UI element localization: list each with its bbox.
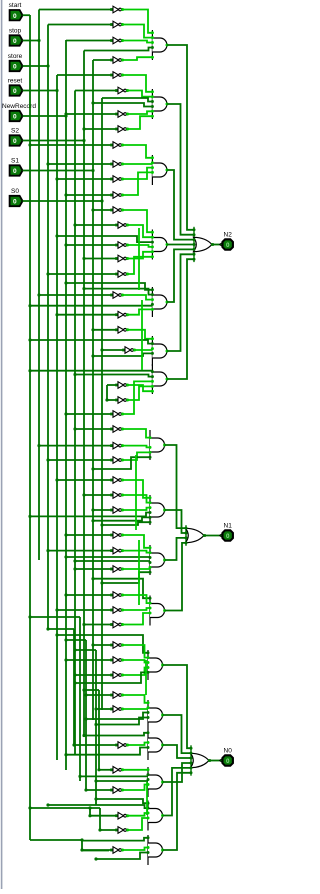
node OR N1 input port 1 bbox=[185, 527, 188, 530]
svg-text:NewRecord: NewRecord bbox=[2, 103, 36, 110]
inverter NOT y=709 bbox=[110, 706, 124, 713]
wire NOT input feed y=510 bbox=[93, 509, 111, 511]
node AND y=351 input port 2 bbox=[151, 342, 154, 345]
wire feed row y=525 to AND y=510 bbox=[102, 522, 150, 525]
inverter NOT y=675 bbox=[110, 672, 124, 679]
node feed junction bbox=[84, 693, 87, 696]
wire from input pin bbox=[23, 115, 66, 117]
inverter NOT y=550.6 bbox=[110, 547, 124, 554]
node feed junction bbox=[73, 681, 76, 684]
node OR N2 input port 4 bbox=[193, 243, 196, 246]
wire feed row y=561 to AND y=560 bbox=[75, 560, 150, 562]
node AND y=445 input port 6 bbox=[149, 456, 152, 459]
node AND y=510 input port 6 bbox=[149, 521, 152, 524]
wire feed row y=9.5 to AND y=45 bbox=[122, 10, 152, 33]
wire bus column x=57 bbox=[56, 75, 58, 760]
wire NOT input feed y=400 bbox=[107, 399, 116, 401]
inverter NOT y=75 bbox=[110, 72, 124, 79]
wire from input pin bbox=[23, 40, 39, 42]
AND gate y=610.5 bbox=[150, 596, 166, 626]
wire bus column x=66 bbox=[65, 40, 67, 770]
svg-text:0: 0 bbox=[226, 758, 230, 765]
inverter NOT y=660 bbox=[110, 657, 124, 664]
wire feed row y=340 to AND y=351 bbox=[30, 340, 152, 344]
AND gate y=45 bbox=[152, 30, 168, 60]
node AND y=45 input port 3 bbox=[151, 41, 154, 44]
node AND y=351 input port 3 bbox=[151, 347, 154, 350]
wire NOT input feed y=295 bbox=[39, 294, 111, 296]
inverter NOT y=790 bbox=[110, 787, 124, 794]
wire NOT input feed y=550.6 bbox=[48, 550, 111, 552]
node feed junction bbox=[94, 779, 97, 782]
wire NOT input feed y=60 bbox=[93, 59, 111, 61]
inverter NOT y=645 bbox=[110, 642, 124, 649]
node OR N0 input port 3 bbox=[190, 757, 193, 760]
wire feed row y=400 to AND y=379 bbox=[127, 386, 152, 400]
svg-text:0: 0 bbox=[13, 88, 17, 95]
node AND y=379 input port 6 bbox=[151, 390, 154, 393]
node AND y=510 input port 4 bbox=[149, 511, 152, 514]
wire AND y=745 to OR N0 bbox=[163, 745, 191, 758]
wire AND y=170 to OR N2 bbox=[167, 170, 194, 240]
svg-text:N0: N0 bbox=[224, 748, 233, 755]
OR gate N0 bbox=[191, 745, 211, 775]
node feed junction bbox=[64, 593, 67, 596]
AND gate y=782 bbox=[148, 767, 164, 797]
svg-text:0: 0 bbox=[13, 13, 17, 20]
wire drop to NOT 830 bbox=[99, 808, 101, 830]
wire feeder column x=96 bbox=[95, 650, 97, 805]
inverter NOT y=400 bbox=[115, 397, 129, 404]
wire feeder link bbox=[48, 628, 74, 630]
node pin-bus junction bbox=[46, 64, 49, 67]
wire NOT input feed y=75 bbox=[57, 74, 111, 76]
wire feed row y=595 to AND y=610.5 bbox=[122, 595, 150, 603]
node feed junction bbox=[73, 559, 76, 562]
wire feed row y=114 to AND y=104 bbox=[127, 111, 152, 114]
wire feed row y=414 to AND y=379 bbox=[122, 381, 152, 414]
node OR N1 input port 2 bbox=[185, 532, 188, 535]
wire from input pin bbox=[23, 200, 102, 202]
inverter NOT y=295 bbox=[110, 292, 124, 299]
inverter NOT y=745 bbox=[115, 742, 129, 749]
inverter NOT y=595 bbox=[110, 592, 124, 599]
svg-text:N2: N2 bbox=[224, 232, 233, 239]
wire NOT input feed y=675 bbox=[75, 674, 111, 676]
node feed junction bbox=[37, 444, 40, 447]
input pin start bbox=[9, 2, 23, 20]
wire feed row y=578.7 to AND y=610.5 bbox=[93, 579, 150, 599]
node OR N2 input port 7 bbox=[193, 258, 196, 261]
node AND y=104 input port 3 bbox=[151, 100, 154, 103]
node AND y=379 input port 3 bbox=[151, 375, 154, 378]
node feed junction bbox=[28, 369, 31, 372]
inverter NOT y=129 bbox=[115, 126, 129, 133]
node feed junction bbox=[94, 857, 97, 860]
node feed junction bbox=[94, 797, 97, 800]
AND gate y=104 bbox=[152, 89, 168, 119]
node feed junction bbox=[73, 373, 76, 376]
wire NOT input feed y=179 bbox=[57, 178, 111, 180]
node OR N0 input port 2 bbox=[190, 752, 193, 755]
node feed junction bbox=[73, 567, 76, 570]
node AND y=244.5 input port 3 bbox=[151, 241, 154, 244]
node AND y=104 input port 2 bbox=[151, 95, 154, 98]
node feed junction bbox=[64, 533, 67, 536]
svg-text:0: 0 bbox=[13, 168, 17, 175]
inverter NOT y=510 bbox=[110, 507, 124, 514]
wire NOT input feed y=258.5 bbox=[84, 258, 116, 260]
wire NOT input feed y=245 bbox=[66, 244, 116, 246]
wire feed row y=90.5 to AND y=104 bbox=[127, 91, 152, 97]
svg-text:0: 0 bbox=[13, 199, 17, 206]
wire feed row y=790 to AND y=782 bbox=[122, 785, 148, 791]
wire feed row y=815.7 to AND y=815.5 bbox=[127, 813, 148, 816]
wire AND y=560 to OR N1 bbox=[165, 538, 186, 560]
inverter NOT y=830 bbox=[115, 827, 129, 834]
AND gate y=244.5 bbox=[152, 230, 168, 260]
node AND y=445 input port 2 bbox=[149, 436, 152, 439]
node feed junction bbox=[91, 101, 94, 104]
wire feed row y=480 to AND y=510 bbox=[122, 480, 150, 498]
node AND y=302 input port 3 bbox=[151, 298, 154, 301]
wire AND y=244.5 to OR N2 bbox=[167, 244, 194, 246]
output pin N1 bbox=[220, 523, 233, 541]
node feed junction bbox=[28, 143, 31, 146]
wire NOT input feed y=195 bbox=[66, 194, 111, 196]
node feed junction bbox=[46, 458, 49, 461]
wire NOT input feed y=164 bbox=[48, 163, 111, 165]
node AND y=665 input port 5 bbox=[147, 671, 150, 674]
canvas left border bbox=[1, 0, 3, 889]
AND gate y=510 bbox=[150, 495, 166, 525]
node OR N0 input port 6 bbox=[190, 771, 193, 774]
wire feed row y=769.8 to AND y=782 bbox=[122, 769, 148, 771]
wire feed row y=145 to AND y=170 bbox=[122, 145, 152, 158]
node feed junction bbox=[55, 313, 58, 316]
node feed junction bbox=[28, 515, 31, 518]
node pin-bus junction bbox=[55, 89, 58, 92]
node AND y=850 input port 4 bbox=[147, 851, 150, 854]
input pin S0 bbox=[10, 188, 23, 206]
OR gate N1 bbox=[186, 525, 206, 546]
node AND y=610.5 input port 3 bbox=[149, 607, 152, 610]
node feed junction bbox=[91, 328, 94, 331]
node pin-bus junction bbox=[91, 169, 94, 172]
wire AND y=104 to OR N2 bbox=[167, 104, 194, 235]
wire feed row y=245 to AND y=244.5 bbox=[127, 245, 152, 247]
svg-text:0: 0 bbox=[226, 242, 230, 249]
wire NOT input feed y=830 bbox=[100, 829, 116, 831]
wire feed row y=314.7 to AND y=302 bbox=[127, 309, 152, 314]
node feed junction bbox=[98, 828, 101, 831]
wire AND y=782 to OR N0 bbox=[163, 763, 191, 782]
node AND y=302 input port 4 bbox=[151, 303, 154, 306]
wire feed row y=283 to AND y=302 bbox=[66, 283, 152, 290]
wire feeder column x=86 bbox=[85, 640, 87, 790]
wire bus column x=48 bbox=[47, 25, 49, 630]
node AND y=244.5 input port 1 bbox=[151, 231, 154, 234]
wire drop to NOT 815 bbox=[89, 808, 91, 816]
wire feed row y=840.6 to AND y=850 bbox=[82, 838, 148, 841]
node feed junction bbox=[64, 193, 67, 196]
wire NOT input feed y=274 bbox=[48, 273, 116, 275]
OR gate N2 bbox=[194, 227, 214, 262]
node feed junction bbox=[46, 272, 49, 275]
node AND y=665 input port 2 bbox=[147, 656, 150, 659]
wire NOT input feed y=329.8 bbox=[93, 329, 116, 331]
wire AND y=510 to OR N1 bbox=[165, 510, 186, 533]
wire NOT input feed y=460 bbox=[48, 459, 111, 461]
AND gate y=351 bbox=[152, 336, 168, 366]
node feed junction bbox=[55, 608, 58, 611]
svg-text:S1: S1 bbox=[11, 157, 19, 164]
wire feeder column x=80 bbox=[79, 617, 81, 781]
node AND y=715 input port 1 bbox=[147, 701, 150, 704]
inverter NOT y=9.5 bbox=[110, 6, 124, 13]
wire feed row y=274 to AND y=244.5 bbox=[127, 257, 152, 274]
node feed junction bbox=[46, 549, 49, 552]
node AND y=445 input port 4 bbox=[149, 446, 152, 449]
node branch junction bbox=[28, 806, 31, 809]
node feed junction bbox=[105, 398, 108, 401]
inverter NOT y=274 bbox=[115, 271, 129, 278]
node feed junction bbox=[55, 177, 58, 180]
node feed junction bbox=[100, 348, 103, 351]
wire fanout vertical bbox=[138, 228, 140, 290]
inverter NOT y=40.5 bbox=[110, 37, 124, 44]
node feed junction bbox=[78, 775, 81, 778]
node OR N2 input port 5 bbox=[193, 248, 196, 251]
node AND y=560 input port 5 bbox=[149, 566, 152, 569]
node branch junction bbox=[88, 806, 91, 809]
node feed junction bbox=[73, 223, 76, 226]
node AND y=244.5 input port 2 bbox=[151, 236, 154, 239]
node AND y=170 input port 3 bbox=[151, 166, 154, 169]
wire feed row y=754.7 to AND y=745 bbox=[66, 748, 148, 755]
node AND y=782 input port 1 bbox=[147, 768, 150, 771]
wire AND y=351 to OR N2 bbox=[167, 254, 194, 351]
wire AND y=445 to OR N1 bbox=[165, 445, 186, 528]
svg-text:0: 0 bbox=[13, 38, 17, 45]
wire feed row y=129 to AND y=104 bbox=[127, 116, 152, 129]
wire feed row y=675 to AND y=665 bbox=[122, 668, 148, 676]
svg-text:0: 0 bbox=[13, 138, 17, 145]
node AND y=445 input port 5 bbox=[149, 451, 152, 454]
inverter NOT y=769.8 bbox=[110, 767, 124, 774]
node AND y=510 input port 5 bbox=[149, 516, 152, 519]
wire from input pin bbox=[23, 90, 57, 92]
wire AND y=45 to OR N2 bbox=[167, 45, 194, 230]
node AND y=510 input port 2 bbox=[149, 501, 152, 504]
node AND y=379 input port 5 bbox=[151, 385, 154, 388]
node feed junction bbox=[82, 287, 85, 290]
wire AND y=302 to OR N2 bbox=[167, 249, 194, 302]
inverter NOT y=60 bbox=[110, 57, 124, 64]
wire feed row y=429 to AND y=445 bbox=[122, 429, 150, 438]
node AND y=244.5 input port 5 bbox=[151, 250, 154, 253]
node AND y=45 input port 6 bbox=[151, 56, 154, 59]
AND gate y=170 bbox=[152, 155, 168, 185]
node feed junction bbox=[55, 633, 58, 636]
node AND y=351 input port 1 bbox=[151, 337, 154, 340]
wire fanout vertical bbox=[141, 300, 143, 370]
wire NOT input feed y=385 bbox=[107, 384, 116, 386]
node AND y=610.5 input port 2 bbox=[149, 602, 152, 605]
wire feed row y=329.8 to AND y=351 bbox=[127, 330, 152, 339]
node AND y=815.5 input port 2 bbox=[147, 807, 150, 810]
inverter NOT y=329.8 bbox=[115, 327, 129, 334]
node feed junction bbox=[82, 257, 85, 260]
node AND y=782 input port 3 bbox=[147, 778, 150, 781]
wire bus column x=107 bbox=[106, 385, 108, 400]
node AND y=379 input port 2 bbox=[151, 370, 154, 373]
node AND y=45 input port 4 bbox=[151, 46, 154, 49]
wire NOT input feed y=225 bbox=[75, 224, 116, 226]
wire feed row y=179 to AND y=170 bbox=[122, 168, 152, 179]
svg-text:S2: S2 bbox=[11, 127, 19, 134]
node AND y=379 input port 4 bbox=[151, 380, 154, 383]
inverter NOT y=535 bbox=[110, 532, 124, 539]
wire feed row y=781 to AND y=782 bbox=[96, 780, 148, 782]
wire AND y=715 to OR N0 bbox=[163, 715, 191, 753]
inverter NOT y=385 bbox=[115, 382, 129, 389]
node link junction bbox=[46, 627, 49, 630]
inverter NOT y=624.5 bbox=[110, 621, 124, 628]
node AND y=302 input port 5 bbox=[151, 308, 154, 311]
wire bottom run bbox=[30, 840, 109, 851]
node feed junction bbox=[82, 734, 85, 737]
wire NOT input feed y=850 bbox=[82, 849, 111, 851]
node link junction bbox=[73, 648, 76, 651]
wire feed row y=583 to AND y=560 bbox=[102, 572, 150, 583]
wire feed row y=164 to AND y=170 bbox=[122, 163, 152, 165]
node AND y=104 input port 1 bbox=[151, 90, 154, 93]
wire NOT input feed y=9.5 bbox=[39, 9, 111, 11]
wire feed row y=776.4 to AND y=782 bbox=[80, 775, 148, 777]
inverter NOT y=495 bbox=[110, 492, 124, 499]
inverter NOT y=815.7 bbox=[115, 812, 129, 819]
inverter NOT y=90.5 bbox=[115, 87, 129, 94]
wire feed row y=695 to AND y=715 bbox=[122, 695, 148, 703]
AND gate y=715 bbox=[148, 700, 164, 730]
node AND y=244.5 input port 6 bbox=[151, 255, 154, 258]
inverter NOT y=114 bbox=[115, 111, 129, 118]
node AND y=302 input port 1 bbox=[151, 288, 154, 291]
wire NOT input feed y=595 bbox=[66, 594, 111, 596]
wire feed row y=516.4 to AND y=510 bbox=[30, 513, 150, 517]
node pin-bus junction bbox=[82, 139, 85, 142]
node feed junction bbox=[91, 208, 94, 211]
node AND y=170 input port 4 bbox=[151, 171, 154, 174]
node feed junction bbox=[64, 658, 67, 661]
inverter NOT y=569 bbox=[110, 566, 124, 573]
wire feeder link bbox=[30, 616, 80, 618]
node branch junction bbox=[80, 838, 83, 841]
wire feeder link bbox=[75, 649, 96, 651]
node OR N1 input port 3 bbox=[185, 536, 188, 539]
inverter NOT y=210 bbox=[110, 207, 124, 214]
inverter NOT y=195 bbox=[110, 192, 124, 199]
wire feed row y=557 to AND y=560 bbox=[66, 556, 150, 558]
node AND y=850 input port 3 bbox=[147, 846, 150, 849]
wire NOT input feed y=350 bbox=[102, 349, 123, 351]
node AND y=745 input port 1 bbox=[147, 731, 150, 734]
AND gate y=560 bbox=[150, 545, 166, 575]
AND gate y=665 bbox=[148, 650, 164, 680]
wire NOT input feed y=414 bbox=[66, 413, 111, 415]
wire NOT input feed y=480 bbox=[57, 479, 111, 481]
svg-text:0: 0 bbox=[13, 64, 17, 71]
wire NOT input feed y=660 bbox=[66, 659, 111, 661]
wire NOT input feed y=610 bbox=[57, 609, 111, 611]
wire feed row y=745 to AND y=745 bbox=[127, 743, 148, 746]
wire NOT input feed y=695 bbox=[86, 694, 111, 696]
node AND y=170 input port 1 bbox=[151, 156, 154, 159]
node pin-bus junction bbox=[100, 199, 103, 202]
node AND y=715 input port 4 bbox=[147, 716, 150, 719]
node AND y=510 input port 1 bbox=[149, 496, 152, 499]
wire feed row y=258.5 to AND y=244.5 bbox=[127, 252, 152, 259]
node AND y=745 input port 3 bbox=[147, 741, 150, 744]
wire feed row y=724.5 to AND y=715 bbox=[96, 718, 148, 725]
node link junction bbox=[82, 688, 85, 691]
wire feed row y=510 to AND y=510 bbox=[122, 508, 150, 510]
AND gate y=445 bbox=[150, 430, 166, 460]
node OR N2 input port 6 bbox=[193, 253, 196, 256]
wire feed row y=195 to AND y=170 bbox=[122, 172, 152, 195]
node AND y=815.5 input port 4 bbox=[147, 817, 150, 820]
wire feed row y=735.5 to AND y=745 bbox=[84, 733, 148, 736]
node feed junction bbox=[91, 643, 94, 646]
node pin-bus junction bbox=[37, 39, 40, 42]
node feed junction bbox=[82, 127, 85, 130]
wire bus column x=75 bbox=[74, 91, 76, 756]
wire feed row y=288.6 to AND y=302 bbox=[84, 289, 152, 295]
node feed junction bbox=[28, 304, 31, 307]
wire feed row y=520.7 to AND y=510 bbox=[93, 517, 150, 520]
node pin-bus junction bbox=[64, 114, 67, 117]
node feed junction bbox=[64, 412, 67, 415]
inverter NOT y=258.5 bbox=[115, 255, 129, 262]
inverter NOT y=445.6 bbox=[110, 442, 124, 449]
node feed junction bbox=[91, 467, 94, 470]
node feed junction bbox=[84, 788, 87, 791]
node feed junction bbox=[91, 354, 94, 357]
node feed junction bbox=[82, 623, 85, 626]
node AND y=560 input port 2 bbox=[149, 551, 152, 554]
inverter NOT y=245 bbox=[115, 242, 129, 249]
input pin store bbox=[8, 53, 23, 71]
AND gate y=850 bbox=[148, 835, 164, 865]
node feed junction bbox=[88, 814, 91, 817]
wire NOT input feed y=709 bbox=[96, 708, 111, 710]
wire feed row y=635 to AND y=665 bbox=[57, 635, 148, 653]
node OR N0 input port 4 bbox=[190, 762, 193, 765]
inverter NOT y=429 bbox=[110, 426, 124, 433]
wire feed row y=660 to AND y=665 bbox=[122, 660, 148, 663]
node feed junction bbox=[100, 581, 103, 584]
node link junction bbox=[28, 615, 31, 618]
node feed junction bbox=[55, 478, 58, 481]
wire NOT input feed y=815.7 bbox=[90, 815, 116, 817]
node AND y=560 input port 4 bbox=[149, 561, 152, 564]
wire feed row y=60 to AND y=45 bbox=[122, 57, 152, 60]
wire feed row y=40.5 to AND y=45 bbox=[122, 41, 152, 43]
AND gate y=815.5 bbox=[148, 801, 164, 831]
svg-text:N1: N1 bbox=[224, 523, 233, 530]
wire NOT input feed y=445.6 bbox=[39, 445, 111, 447]
